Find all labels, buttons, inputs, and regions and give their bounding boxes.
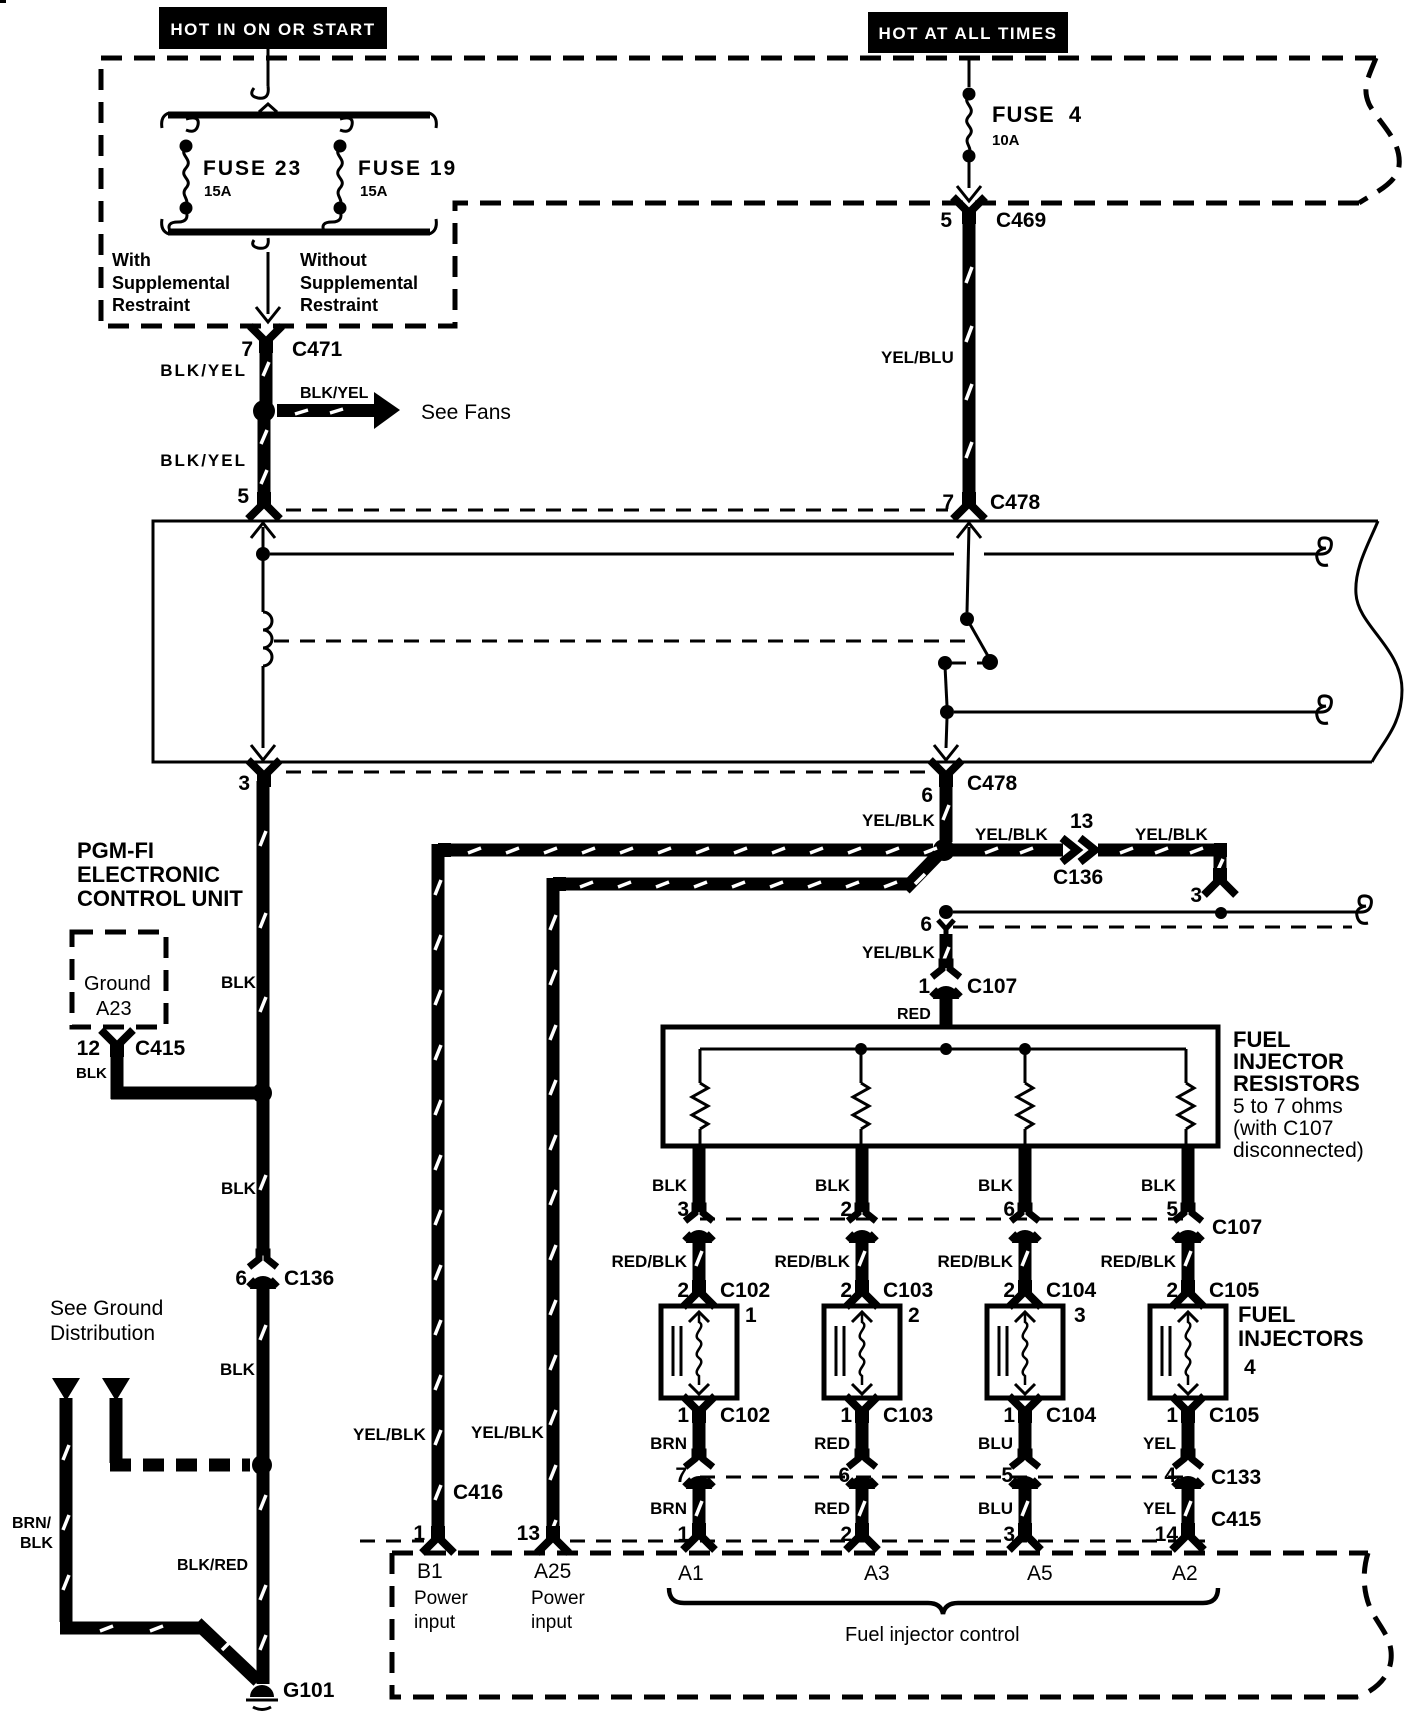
svg-text:BLK: BLK <box>221 973 257 992</box>
svg-text:C102: C102 <box>720 1404 770 1427</box>
connector C105 pin 2 <box>1172 1284 1204 1307</box>
junction node BLK <box>252 1083 272 1103</box>
svg-text:Restraint: Restraint <box>112 295 190 315</box>
resistor 2 <box>860 1049 863 1083</box>
svg-text:CONTROL UNIT: CONTROL UNIT <box>77 886 243 911</box>
wire RED to C133 <box>856 1413 869 1460</box>
svg-text:Distribution: Distribution <box>50 1322 155 1345</box>
svg-text:5: 5 <box>940 209 952 232</box>
svg-text:FUSE 23: FUSE 23 <box>203 157 302 180</box>
connector C133 pin 4 <box>1173 1452 1203 1489</box>
fuel injector 4 body <box>1150 1306 1226 1398</box>
svg-text:HOT AT ALL TIMES: HOT AT ALL TIMES <box>879 24 1058 43</box>
connector C478 pin 6 <box>930 760 962 783</box>
connector C415 pin 3 <box>1009 1527 1041 1550</box>
svg-text:BRN: BRN <box>650 1434 687 1453</box>
svg-text:FUEL: FUEL <box>1238 1302 1295 1327</box>
svg-text:A23: A23 <box>96 998 132 1020</box>
svg-text:FUSE 4: FUSE 4 <box>992 102 1082 127</box>
svg-text:BLK: BLK <box>652 1176 688 1195</box>
svg-text:4: 4 <box>1244 1356 1256 1379</box>
svg-text:C104: C104 <box>1046 1404 1097 1427</box>
svg-text:RED: RED <box>814 1499 850 1518</box>
connector C107 pin 2 <box>847 1206 877 1243</box>
svg-text:Power: Power <box>414 1588 469 1609</box>
svg-text:C136: C136 <box>284 1267 334 1290</box>
svg-text:BLU: BLU <box>978 1434 1013 1453</box>
svg-text:Without: Without <box>300 250 367 270</box>
svg-text:C416: C416 <box>453 1481 503 1504</box>
dashed connector line C107 lower <box>700 1218 1185 1221</box>
fuel injector 3 body <box>987 1306 1063 1398</box>
svg-text:BLK: BLK <box>20 1535 53 1552</box>
brace Fuel injector control <box>669 1588 1218 1614</box>
arrow wire BLK/YEL See Fans <box>277 404 374 417</box>
svg-text:YEL/BLK: YEL/BLK <box>1135 825 1208 844</box>
svg-text:C105: C105 <box>1209 1404 1260 1427</box>
svg-text:Supplemental: Supplemental <box>112 273 230 293</box>
svg-text:BRN/: BRN/ <box>12 1515 52 1532</box>
dashed connector line below relay box <box>286 771 925 774</box>
wire YEL/BLK C478 to junction <box>940 781 953 842</box>
svg-text:Fuel injector control: Fuel injector control <box>845 1624 1020 1646</box>
dashed wire from triangle 2 to BLK junction <box>110 1398 123 1448</box>
wire BLK below C136 <box>257 1284 270 1684</box>
connector C105 pin 1 <box>1172 1396 1204 1419</box>
svg-text:RED/BLK: RED/BLK <box>774 1252 850 1271</box>
connector C478 pin 7 <box>953 496 985 519</box>
injector column 3 : wire BLK from resistor box <box>1019 1146 1032 1212</box>
resistor 3 <box>1024 1049 1027 1083</box>
injector column 4 : wire BLK from resistor box <box>1182 1146 1195 1212</box>
svg-text:BLK/YEL: BLK/YEL <box>160 451 247 470</box>
junction node YEL/BLK main <box>933 839 955 861</box>
svg-text:YEL/BLK: YEL/BLK <box>975 825 1048 844</box>
connector pin 5 into relay box <box>248 496 280 519</box>
svg-text:7: 7 <box>241 338 253 361</box>
svg-text:C102: C102 <box>720 1279 770 1302</box>
injector column 1 : wire BLK from resistor box <box>693 1146 706 1212</box>
svg-text:C133: C133 <box>1211 1466 1261 1489</box>
svg-text:12: 12 <box>77 1037 100 1060</box>
svg-text:C104: C104 <box>1046 1279 1097 1302</box>
wire BRN to C133 <box>693 1413 706 1460</box>
svg-text:FUSE 19: FUSE 19 <box>358 157 457 180</box>
wire YEL/BLK to ECU B1 <box>438 844 933 1538</box>
svg-text:disconnected): disconnected) <box>1233 1139 1364 1162</box>
wire RED to ECU <box>856 1486 869 1535</box>
svg-text:Ground: Ground <box>84 973 151 995</box>
svg-text:A1: A1 <box>678 1562 704 1585</box>
inline connector C136 pin 13 <box>1062 838 1077 862</box>
svg-text:YEL: YEL <box>1143 1434 1176 1453</box>
svg-text:6: 6 <box>920 913 932 936</box>
svg-text:INJECTORS: INJECTORS <box>1238 1326 1364 1351</box>
wire YEL/BLK junction to C136 inline <box>953 844 1063 857</box>
relay internal line from coil node to continuation <box>270 553 1318 556</box>
resistor 1 <box>699 1049 702 1083</box>
dashed connector line at relay top <box>286 509 948 512</box>
bus bar bottom (fuse output bus) <box>168 229 430 236</box>
wire BLU to C133 <box>1019 1413 1032 1460</box>
injector column 2 : wire BLK from resistor box <box>856 1146 869 1212</box>
svg-text:C415: C415 <box>135 1037 186 1060</box>
connector C133 pin 6 <box>847 1452 877 1489</box>
connector C102 pin 1 <box>683 1396 715 1419</box>
connector C103 pin 1 <box>846 1396 878 1419</box>
svg-text:BLK/YEL: BLK/YEL <box>300 385 369 402</box>
svg-text:C415: C415 <box>1211 1508 1262 1531</box>
svg-text:A5: A5 <box>1027 1562 1053 1585</box>
svg-text:C471: C471 <box>292 338 343 361</box>
wire RED C107 to resistor box <box>940 996 953 1027</box>
connector C107 pin 6 <box>1010 1206 1040 1243</box>
svg-text:7: 7 <box>942 491 954 514</box>
connector pin 3 below relay box <box>248 760 280 783</box>
wire BLK/YEL C471 to junction <box>260 347 273 405</box>
svg-text:BRN: BRN <box>650 1499 687 1518</box>
connector C133 pin 5 <box>1010 1452 1040 1489</box>
svg-text:1: 1 <box>745 1304 757 1327</box>
svg-text:Supplemental: Supplemental <box>300 273 418 293</box>
wire from HOT IN ON OR START into fuse box <box>267 49 270 86</box>
wire RED/BLK to injector <box>1182 1240 1195 1288</box>
dashed box Ground A23 <box>72 932 166 1027</box>
svg-text:10A: 10A <box>992 132 1020 149</box>
connector C415 pin 1 <box>683 1527 715 1550</box>
relay internal line from contact to continuation <box>954 711 1318 714</box>
svg-text:5: 5 <box>1001 1464 1013 1487</box>
connector C102 pin 2 <box>683 1284 715 1307</box>
svg-text:A2: A2 <box>1172 1562 1198 1585</box>
fuse FUSE 23 15A <box>186 118 198 131</box>
connector C471 pin 7 <box>250 326 282 349</box>
svg-text:input: input <box>414 1612 456 1633</box>
wire BRN to ECU <box>693 1486 706 1535</box>
svg-text:C469: C469 <box>996 209 1046 232</box>
junction node BLK/RED <box>252 1455 272 1475</box>
switch blade <box>967 619 988 656</box>
connector C104 pin 1 <box>1009 1396 1041 1419</box>
svg-text:See Ground: See Ground <box>50 1297 163 1320</box>
svg-text:A3: A3 <box>864 1562 890 1585</box>
svg-text:4: 4 <box>1164 1464 1176 1487</box>
connector C415 pin 2 <box>846 1527 878 1550</box>
connector pin 3 (resistor feed) <box>1204 872 1236 895</box>
svg-text:YEL: YEL <box>1143 1499 1176 1518</box>
dashed actuate line <box>274 640 972 643</box>
wire YEL/BLK C136 to connector 3 <box>1098 844 1220 874</box>
wire RED/BLK to injector <box>856 1240 869 1288</box>
relay box outline <box>1356 521 1402 762</box>
svg-text:C105: C105 <box>1209 1279 1260 1302</box>
wire YEL/BLK node6 to C107 <box>940 934 953 968</box>
relay contact branch (right) <box>957 523 981 538</box>
resistor 4 <box>1185 1049 1188 1083</box>
svg-text:See Fans: See Fans <box>421 401 511 424</box>
svg-text:BLK: BLK <box>221 1179 257 1198</box>
svg-text:C107: C107 <box>1212 1216 1262 1239</box>
svg-text:1: 1 <box>677 1404 689 1427</box>
dashed fuse box (under-dash fuse/relay box, L-shape) <box>101 56 1376 61</box>
svg-text:A25: A25 <box>534 1560 571 1583</box>
svg-text:1: 1 <box>918 975 930 998</box>
fuse FUSE 4 10A <box>968 58 971 87</box>
svg-text:YEL/BLK: YEL/BLK <box>471 1423 544 1442</box>
svg-text:G101: G101 <box>283 1679 335 1702</box>
label box HOT IN ON OR START <box>159 7 387 49</box>
svg-text:6: 6 <box>235 1267 247 1290</box>
wire BLU to ECU <box>1019 1486 1032 1535</box>
connector C469 pin 5 <box>953 197 985 220</box>
svg-text:1: 1 <box>1003 1404 1015 1427</box>
connector C107 pin 5 <box>1173 1206 1203 1243</box>
fuel injector 1 body <box>661 1306 737 1398</box>
svg-text:BLK: BLK <box>220 1360 256 1379</box>
svg-text:RESISTORS: RESISTORS <box>1233 1071 1360 1096</box>
fuel injector 2 body <box>824 1306 900 1398</box>
svg-text:YEL/BLK: YEL/BLK <box>862 943 935 962</box>
ground G101 <box>250 1685 274 1697</box>
scan artifact mark <box>0 0 6 3</box>
wire BLK A23 ground to junction <box>111 1047 258 1099</box>
wire BLK relay pin3 down <box>257 781 270 1087</box>
junction node to fan feed <box>253 400 275 422</box>
connector C107 pin 1 <box>931 962 961 999</box>
connector C107 pin 3 <box>684 1206 714 1243</box>
svg-text:13: 13 <box>517 1522 540 1545</box>
wire YEL/BLK to ECU A25 <box>553 878 911 1538</box>
svg-text:B1: B1 <box>417 1560 443 1583</box>
label box HOT AT ALL TIMES <box>868 12 1068 53</box>
svg-text:C136: C136 <box>1053 866 1103 889</box>
svg-text:7: 7 <box>675 1464 687 1487</box>
connector C133 pin 7 <box>684 1452 714 1489</box>
connector C103 pin 2 <box>846 1284 878 1307</box>
svg-text:HOT IN ON OR START: HOT IN ON OR START <box>170 20 375 39</box>
wire RED/BLK to injector <box>693 1240 706 1288</box>
node 6 with line to continuation <box>939 905 953 919</box>
svg-text:BLK: BLK <box>978 1176 1014 1195</box>
wire YEL to C133 <box>1182 1413 1195 1460</box>
svg-text:YEL/BLU: YEL/BLU <box>881 348 954 367</box>
svg-text:RED: RED <box>897 1006 931 1023</box>
thin connector line C415 <box>360 1540 1205 1543</box>
svg-text:2: 2 <box>908 1304 920 1327</box>
svg-text:5 to 7 ohms: 5 to 7 ohms <box>1233 1095 1343 1118</box>
wire BLK/YEL junction to relay box pin 5 <box>258 417 271 502</box>
svg-text:Restraint: Restraint <box>300 295 378 315</box>
svg-text:3: 3 <box>238 772 250 795</box>
wire RED/BLK to injector <box>1019 1240 1032 1288</box>
svg-text:15A: 15A <box>360 183 388 200</box>
svg-text:5: 5 <box>237 485 249 508</box>
connector pin 13 (A25 wire) <box>537 1530 569 1553</box>
connector C415 pin 12 <box>101 1030 133 1053</box>
svg-text:1: 1 <box>413 1522 425 1545</box>
svg-text:C478: C478 <box>990 491 1041 514</box>
svg-text:BLK/RED: BLK/RED <box>177 1557 248 1574</box>
relay coil branch (left) <box>251 523 275 538</box>
wire from fuse bus down to C471 <box>253 238 269 248</box>
svg-text:(with C107: (with C107 <box>1233 1117 1333 1140</box>
svg-text:C103: C103 <box>883 1279 933 1302</box>
connector C136 pin 6 <box>248 1252 278 1289</box>
svg-text:BLU: BLU <box>978 1499 1013 1518</box>
svg-text:RED/BLK: RED/BLK <box>611 1252 687 1271</box>
svg-text:C107: C107 <box>967 975 1017 998</box>
svg-text:input: input <box>531 1612 573 1633</box>
wire BRN/BLK from triangle 1 to G101 <box>60 1398 258 1681</box>
svg-text:1: 1 <box>1166 1404 1178 1427</box>
svg-text:BLK/YEL: BLK/YEL <box>160 361 247 380</box>
svg-text:BLK: BLK <box>76 1065 107 1082</box>
svg-text:PGM-FI: PGM-FI <box>77 838 154 863</box>
female terminal curl <box>252 86 269 98</box>
connector C416 pin 1 (B1 wire) <box>422 1530 454 1553</box>
svg-text:ELECTRONIC: ELECTRONIC <box>77 862 220 887</box>
svg-text:15A: 15A <box>204 183 232 200</box>
svg-text:Power: Power <box>531 1588 586 1609</box>
wire BLK junction to C136 <box>257 1099 270 1255</box>
wire YEL to ECU <box>1182 1486 1195 1535</box>
svg-text:RED: RED <box>814 1434 850 1453</box>
ECU box (PGM-FI control unit, dashed) <box>392 1551 1368 1556</box>
svg-text:RED/BLK: RED/BLK <box>1100 1252 1176 1271</box>
svg-text:RED/BLK: RED/BLK <box>937 1252 1013 1271</box>
svg-text:BLK: BLK <box>815 1176 851 1195</box>
connector C415 pin 14 <box>1172 1527 1204 1550</box>
connector fork under node 6 <box>938 920 954 940</box>
svg-text:C103: C103 <box>883 1404 933 1427</box>
svg-text:BLK: BLK <box>1141 1176 1177 1195</box>
ground distribution triangle 2 <box>102 1378 130 1401</box>
bus bar top (fuse supply bus) <box>168 112 430 119</box>
svg-text:1: 1 <box>840 1404 852 1427</box>
svg-text:6: 6 <box>838 1464 850 1487</box>
svg-text:13: 13 <box>1070 810 1093 833</box>
svg-text:3: 3 <box>1190 884 1202 907</box>
svg-text:YEL/BLK: YEL/BLK <box>353 1425 426 1444</box>
continuation squiggle top <box>1317 538 1332 566</box>
svg-text:C478: C478 <box>967 772 1018 795</box>
resistor bus <box>700 1048 1186 1051</box>
bus notch at feed point <box>259 104 277 112</box>
svg-text:3: 3 <box>1074 1304 1086 1327</box>
wire YEL/BLU C469 to C478 <box>963 218 976 500</box>
svg-text:With: With <box>112 250 151 270</box>
svg-text:YEL/BLK: YEL/BLK <box>862 811 935 830</box>
ground distribution triangle 1 <box>52 1378 80 1401</box>
svg-text:6: 6 <box>921 784 933 807</box>
connector C104 pin 2 <box>1009 1284 1041 1307</box>
dashed connector line C133 <box>700 1476 1183 1479</box>
fuse FUSE 19 15A <box>340 118 352 131</box>
fuel injector resistors box <box>663 1027 1218 1146</box>
